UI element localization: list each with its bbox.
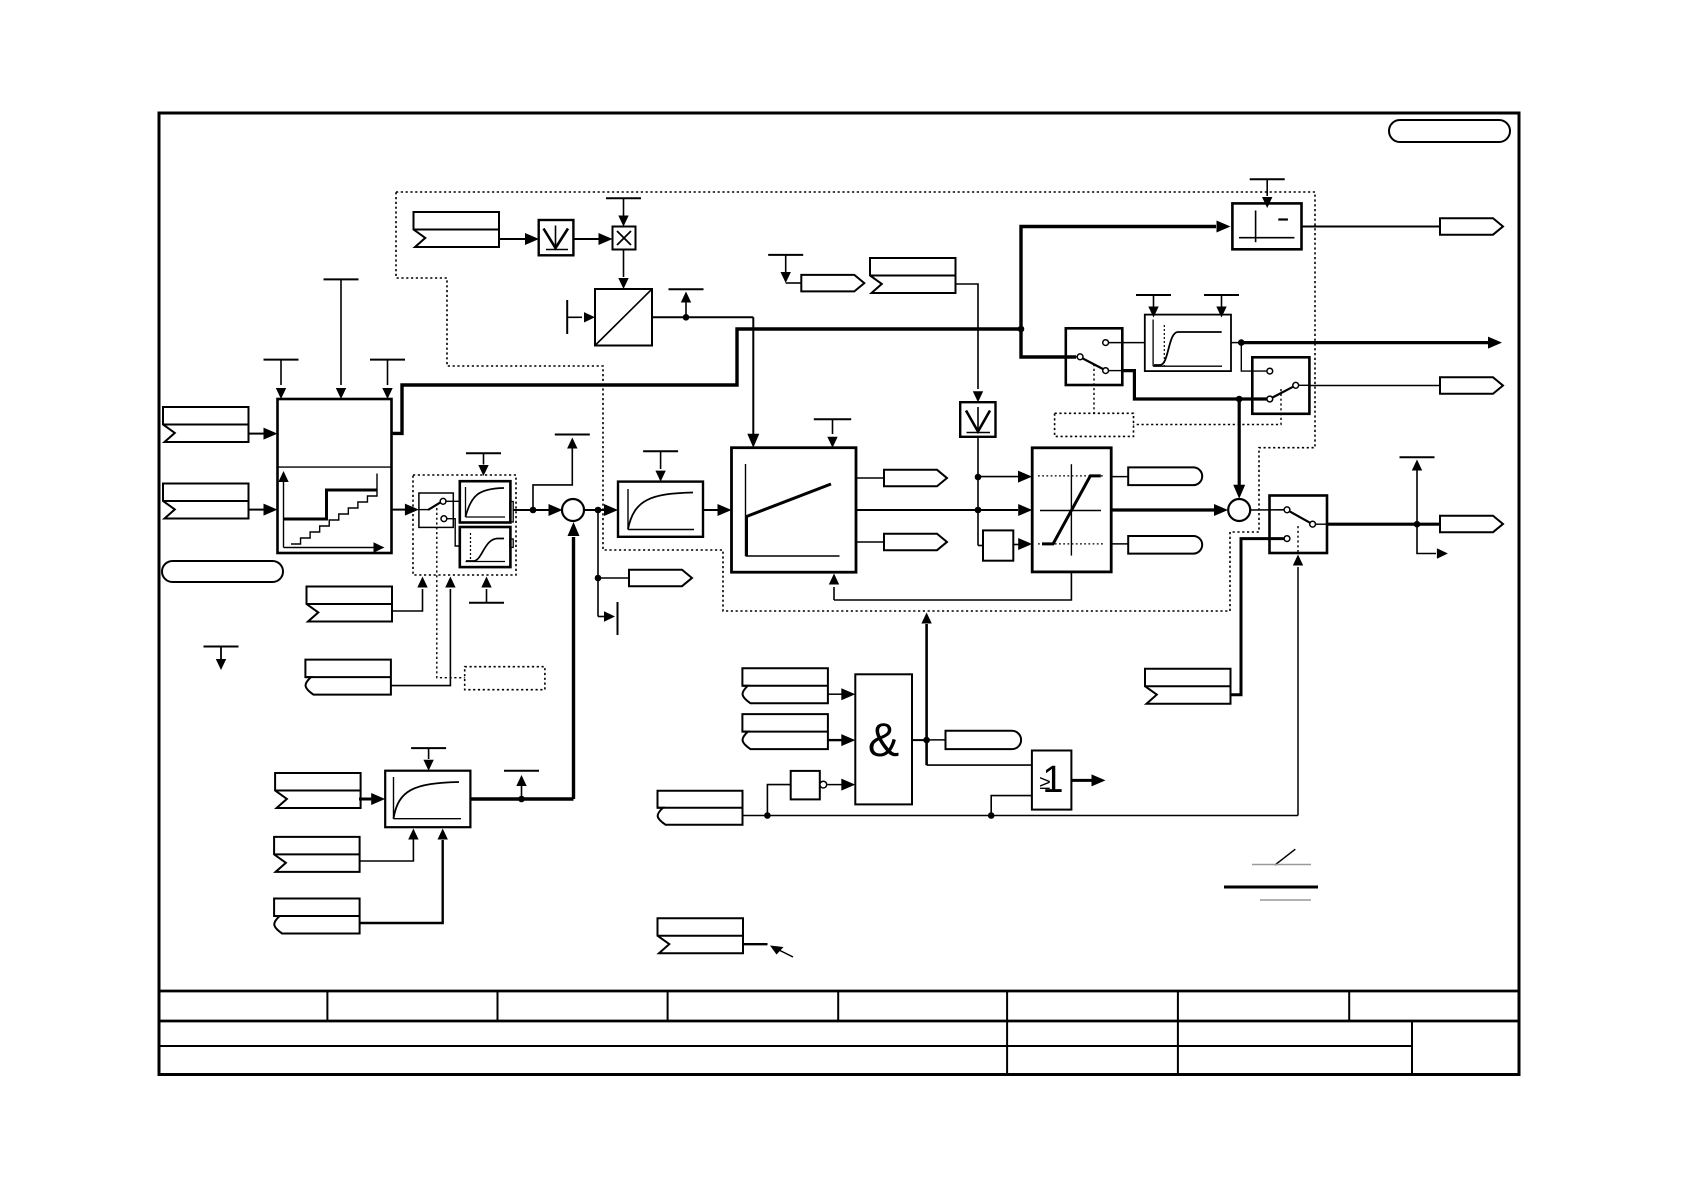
svg-text:&: &	[868, 713, 899, 766]
svg-text:≥: ≥	[1040, 772, 1051, 794]
